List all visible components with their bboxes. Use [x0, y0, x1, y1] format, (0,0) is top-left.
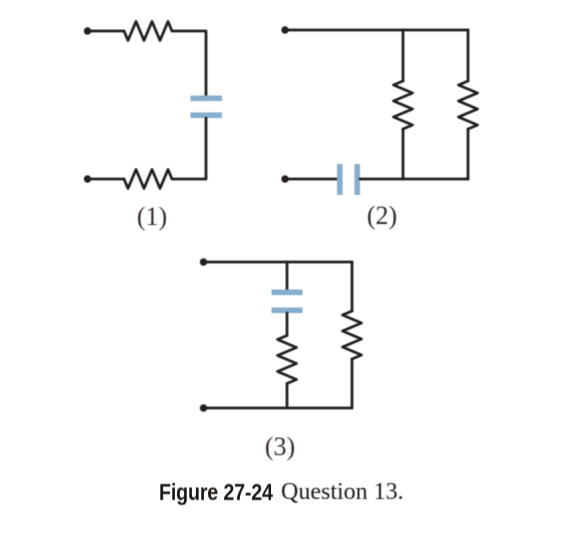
- node: left bottom terminal (2): [281, 175, 288, 182]
- resistor: right parallel resistor (3): [343, 311, 362, 359]
- wire: top rail (3): [204, 261, 353, 264]
- resistor: bottom series resistor (1): [124, 170, 172, 189]
- wire: bottom-left lead (1): [88, 178, 125, 181]
- resistor: top series resistor (1): [124, 22, 172, 41]
- circuit (2): [281, 26, 477, 195]
- wire: middle branch to capacitor (3): [286, 262, 289, 290]
- node: left top terminal (1): [84, 27, 91, 34]
- resistor: middle branch resistor (3): [278, 336, 297, 384]
- wire: bottom rail from capacitor (2): [360, 178, 468, 181]
- wire: top rail (2): [285, 29, 468, 32]
- capacitor: series capacitor (1), bottom plate: [191, 112, 223, 118]
- resistor: right parallel resistor (2): [459, 81, 478, 129]
- capacitor: series capacitor (2), right plate: [354, 164, 360, 195]
- wire: top-left lead (1): [88, 30, 125, 33]
- wire: middle branch upper segment (2): [402, 30, 405, 81]
- resistor: left parallel resistor (2): [394, 81, 413, 129]
- capacitor: series capacitor (1), top plate: [191, 96, 223, 102]
- wire: bottom lead to capacitor (2): [285, 178, 337, 181]
- wire: right branch lower segment (2): [467, 129, 470, 179]
- circuit (3): [200, 258, 362, 411]
- wire: bottom rail (3): [204, 407, 353, 410]
- capacitor: series capacitor (2), left plate: [337, 164, 343, 195]
- wire: top-right to corner and down to capacitor (1): [172, 31, 206, 96]
- label: (3): [250, 432, 310, 462]
- capacitor: middle branch capacitor (3), bottom plate: [272, 308, 303, 314]
- wire: capacitor down to bottom corner (1): [172, 118, 206, 179]
- caption: title "Question 13.": [281, 480, 404, 504]
- label: (1): [122, 202, 182, 232]
- wire: right branch upper segment (2): [467, 30, 470, 81]
- wire: middle branch lower segment (3): [286, 384, 289, 409]
- label: (2): [352, 201, 412, 231]
- circuit (1): [84, 22, 222, 189]
- wire: capacitor to resistor segment (3): [286, 313, 289, 336]
- wire: right branch upper segment (3): [351, 262, 354, 311]
- node: left bottom terminal (3): [200, 404, 207, 411]
- capacitor: middle branch capacitor (3), top plate: [272, 290, 303, 296]
- node: left top terminal (2): [281, 26, 288, 33]
- wire: middle branch lower segment (2): [402, 129, 405, 179]
- wire: right branch lower segment (3): [351, 359, 354, 408]
- caption: figure label "Figure 27-24": [159, 481, 273, 504]
- node: left bottom terminal (1): [84, 175, 91, 182]
- node: left top terminal (3): [200, 258, 207, 265]
